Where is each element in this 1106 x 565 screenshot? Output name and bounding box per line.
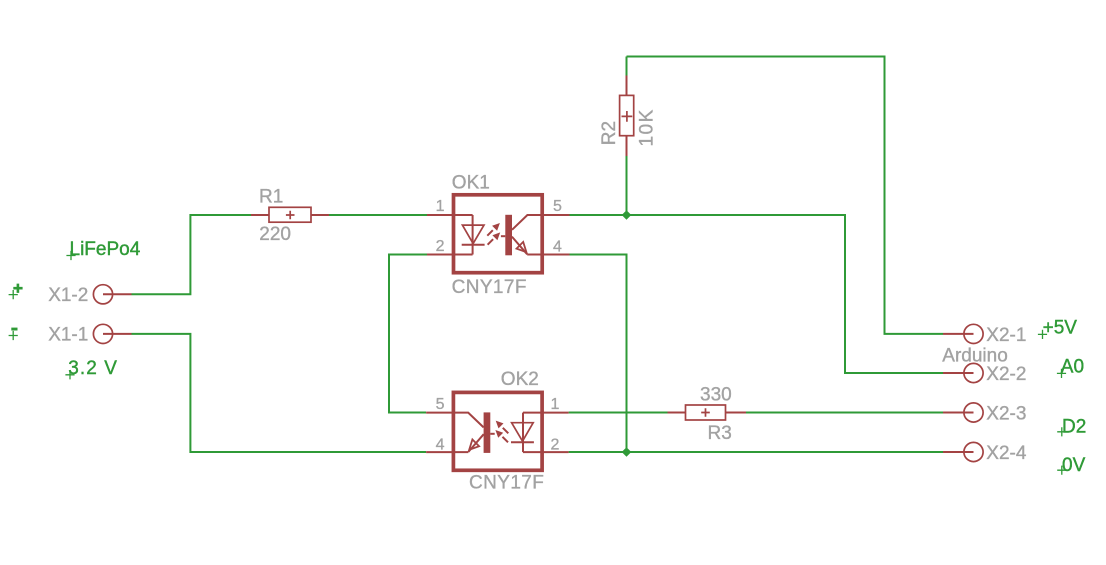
svg-text:X2-4: X2-4 [986,443,1027,464]
svg-text:X2-1: X2-1 [986,325,1026,346]
svg-text:1: 1 [436,198,445,215]
svg-text:LiFePo4: LiFePo4 [70,239,141,260]
svg-text:2: 2 [436,238,445,255]
svg-text:0V: 0V [1062,455,1086,476]
svg-text:X2-3: X2-3 [986,404,1026,425]
svg-text:CNY17F: CNY17F [452,277,527,298]
svg-text:5: 5 [553,198,562,215]
svg-text:5: 5 [436,396,445,413]
svg-text:OK2: OK2 [501,369,539,390]
svg-text:A0: A0 [1061,356,1084,377]
svg-text:R2: R2 [599,121,620,145]
svg-text:Arduino: Arduino [942,346,1008,367]
svg-text:2: 2 [551,437,560,454]
svg-text:3.2 V: 3.2 V [68,358,118,379]
svg-text:220: 220 [259,224,291,245]
svg-text:X1-2: X1-2 [48,285,88,306]
svg-text:10K: 10K [637,108,658,146]
svg-text:X2-2: X2-2 [986,364,1026,385]
svg-text:330: 330 [700,385,732,406]
svg-text:X1-1: X1-1 [48,325,88,346]
svg-text:CNY17F: CNY17F [469,472,544,493]
svg-text:R1: R1 [259,187,283,208]
svg-text:D2: D2 [1062,417,1086,438]
svg-text:+5V: +5V [1043,317,1078,338]
svg-text:1: 1 [551,396,560,413]
svg-text:4: 4 [436,437,445,454]
svg-text:R3: R3 [708,423,732,444]
svg-text:4: 4 [553,238,562,255]
svg-text:OK1: OK1 [452,172,490,193]
